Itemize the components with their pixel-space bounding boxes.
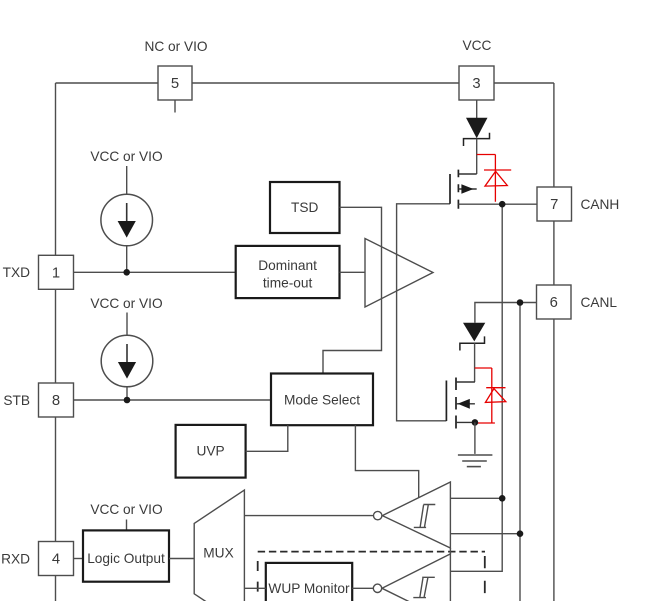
pin 5 (158, 66, 192, 100)
svg-text:WUP Monitor: WUP Monitor (268, 581, 350, 596)
svg-text:CANL: CANL (581, 295, 618, 310)
svg-text:NC or VIO: NC or VIO (144, 39, 207, 54)
wire RX1 input CANH (450, 497, 502, 499)
wire pin 5 to pin 3 (192, 82, 459, 84)
wire STB to Mode Select (74, 399, 272, 401)
svg-text:VCC: VCC (463, 38, 492, 53)
wire WUP Monitor to receiver RX2 (352, 587, 373, 589)
comparator receiver RX2 wake-up (373, 554, 450, 601)
block UVP (176, 425, 246, 478)
svg-text:UVP: UVP (197, 444, 225, 459)
block Dominant time-out (236, 246, 340, 298)
wire CANH down to receiver (450, 204, 502, 571)
wire NMOS source to ground (474, 422, 476, 454)
wire Mode Select to receiver enable (355, 425, 418, 498)
svg-text:4: 4 (52, 552, 60, 568)
svg-text:TXD: TXD (3, 265, 30, 280)
svg-text:RXD: RXD (1, 552, 30, 567)
svg-text:Logic Output: Logic Output (87, 551, 165, 566)
block Mode Select (271, 374, 373, 426)
node NMOS source junction (472, 419, 479, 426)
node CANL junction (517, 299, 524, 306)
pin 6 (537, 285, 572, 319)
transistor PMOS high-side (450, 170, 477, 209)
diode D2 red body diode lower (475, 368, 506, 423)
pin 3 (459, 66, 494, 100)
op-amp driver triangle (365, 239, 433, 308)
svg-text:7: 7 (550, 197, 558, 213)
wire Dominant time-out to driver (340, 271, 366, 273)
wire stub into current source I2 (126, 313, 128, 336)
wire joining receiver edges across boundary (449, 548, 451, 554)
pin 1 (39, 255, 74, 289)
pin 4 (39, 542, 74, 576)
wire zener Z1 to PMOS source (476, 139, 478, 174)
current source I2 (101, 335, 153, 387)
wire Logic Output to MUX (169, 558, 194, 560)
comparator receiver RX1 (374, 482, 451, 548)
block Logic Output (83, 530, 169, 581)
diode Z1 upper zener (464, 118, 490, 146)
pin 7 (537, 187, 572, 221)
current source I1 (101, 194, 153, 246)
node RX1-CANL junction (517, 530, 524, 537)
wire RXD to Logic Output (74, 558, 84, 560)
svg-text:6: 6 (550, 295, 558, 311)
wire CANL net (475, 303, 537, 323)
wire top-left from rail to pin 5 (56, 82, 159, 84)
svg-text:VCC or VIO: VCC or VIO (90, 149, 162, 164)
wire stub into Logic Output (126, 520, 128, 531)
diode Z2 lower zener (460, 323, 485, 351)
wire stub into current source I1 (126, 166, 128, 194)
diode D1 red body diode upper (477, 155, 512, 202)
svg-text:CANH: CANH (581, 197, 620, 212)
svg-text:TSD: TSD (291, 200, 318, 215)
svg-text:VCC or VIO: VCC or VIO (90, 296, 162, 311)
wire left rail (55, 83, 57, 601)
block WUP Monitor (266, 563, 352, 601)
node CANH junction (499, 201, 506, 208)
svg-text:Mode Select: Mode Select (284, 393, 360, 408)
svg-text:STB: STB (3, 393, 30, 408)
node TXD junction (123, 269, 130, 276)
svg-text:Dominant: Dominant (258, 258, 317, 273)
wire current source I1 to TXD node (126, 246, 128, 272)
svg-text:5: 5 (171, 76, 179, 92)
wire zener Z2 to NMOS drain (474, 343, 476, 382)
wire TXD to Dominant time-out (74, 271, 236, 273)
svg-text:8: 8 (52, 393, 60, 409)
wire gate drive line (397, 204, 450, 421)
wire pin 3 to upper zener (476, 100, 478, 118)
svg-text:1: 1 (52, 265, 60, 281)
wire CANL down to receiver (519, 303, 521, 601)
node STB junction (124, 397, 131, 404)
svg-text:MUX: MUX (203, 545, 233, 560)
wire receiver RX1 output to MUX (244, 515, 373, 517)
wire RX1 input CANL (450, 533, 520, 535)
wire current source I2 to STB node (126, 387, 128, 400)
svg-text:3: 3 (472, 76, 480, 92)
pin 8 (39, 383, 74, 417)
transistor NMOS low-side (446, 378, 475, 429)
MUX (194, 490, 244, 601)
node RX1-CANH junction (499, 495, 506, 502)
svg-text:VCC or VIO: VCC or VIO (90, 502, 162, 517)
wire CANH net (458, 203, 537, 205)
svg-text:time-out: time-out (263, 276, 313, 291)
wire UVP to Mode Select (246, 425, 288, 451)
wire right rail (553, 83, 555, 601)
ground (458, 455, 493, 467)
block TSD (270, 182, 340, 233)
wire TSD to Mode Select (323, 207, 382, 373)
wire NC stub below pin 5 (174, 100, 176, 113)
wire MUX to WUP Monitor (244, 587, 265, 589)
dashed low-power block boundary (258, 552, 485, 601)
wire pin 3 to right rail (494, 82, 554, 84)
